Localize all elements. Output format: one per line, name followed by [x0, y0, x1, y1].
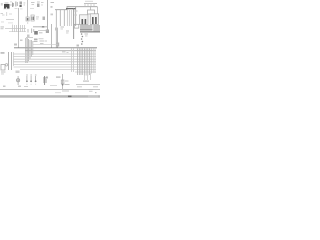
wire dotted vertical [81, 33, 83, 35]
title block band [0, 95, 100, 98]
wire dark horizontal [80, 31, 100, 32]
wire faint pre-bus [33, 44, 58, 46]
label text [61, 27, 65, 28]
label text [51, 2, 55, 3]
diode D1 [37, 4, 40, 8]
wire [26, 37, 33, 39]
label text [85, 34, 89, 35]
label text [83, 81, 89, 82]
wire bundle left-center vertical [25, 38, 27, 63]
label text [1, 12, 4, 15]
wire vertical center2 [57, 28, 59, 48]
relay K5 box [90, 14, 98, 25]
wire right drop [75, 7, 77, 26]
label text near right bus [75, 11, 78, 12]
component M1 [56, 43, 59, 47]
label text extras top [1, 3, 3, 6]
relay K4 box [80, 15, 89, 25]
wire [76, 84, 100, 86]
label text [39, 32, 43, 33]
connector J3 small box [74, 24, 79, 28]
connector grid hatch right [78, 49, 92, 76]
wire long vertical left [18, 8, 20, 48]
component X1 [34, 31, 38, 35]
switch S3 [35, 75, 37, 76]
module A2 gray rect [93, 25, 100, 31]
label text left [1, 52, 5, 54]
wire W1 vertical [26, 0, 29, 18]
label text bottom-left [3, 86, 6, 88]
wire pair left vertical [8, 52, 10, 70]
label text [34, 39, 38, 41]
wire hatch tails [84, 73, 86, 80]
wire [6, 19, 14, 21]
sensor B1 [46, 30, 49, 34]
label text [1, 72, 6, 73]
switch S1 [26, 75, 28, 76]
switch S2 [30, 75, 32, 76]
ground [5, 64, 7, 66]
lamp E1 [17, 76, 19, 85]
fuse F1 [62, 74, 64, 89]
label text above bus [14, 44, 17, 46]
node dots under switches [26, 83, 27, 86]
label text cluster center [33, 26, 41, 27]
label text [56, 77, 61, 78]
wire W2 vertical long [46, 0, 49, 30]
module A1 gray rect [80, 25, 93, 30]
wire dark drop [73, 8, 75, 39]
label text [36, 16, 39, 19]
label text [1, 26, 5, 29]
wire verticals right of center [71, 49, 73, 73]
wire ladder mid-left [5, 28, 26, 30]
component K1 dark block [4, 4, 10, 9]
wire main dark horizontal bus [14, 47, 97, 49]
battery G1 box [1, 65, 5, 71]
wire bus top [55, 7, 98, 10]
connector J1 [26, 17, 29, 21]
wire vertical center [51, 24, 53, 48]
relay K3 [43, 17, 46, 21]
label text [77, 86, 82, 87]
resistor R1 [15, 2, 18, 7]
wire horizontal bus lines [14, 53, 97, 55]
label text extras mid-left [2, 15, 5, 16]
wire full-width separator [0, 89, 100, 91]
connector J2 [88, 10, 95, 14]
label text [31, 1, 35, 4]
resistor network RN1 [44, 76, 46, 85]
label text [65, 81, 69, 82]
capacitor C1 [11, 3, 14, 8]
transistor Q1 [20, 2, 23, 5]
wire [38, 30, 48, 32]
label text [85, 0, 93, 3]
wire second bus [25, 50, 96, 52]
wire bus dark segment [66, 8, 76, 9]
wire ladder top right [84, 3, 97, 5]
label text [24, 2, 26, 5]
component K2 [31, 15, 34, 21]
wire drops from bus [55, 10, 57, 48]
label text below separator [62, 91, 69, 92]
